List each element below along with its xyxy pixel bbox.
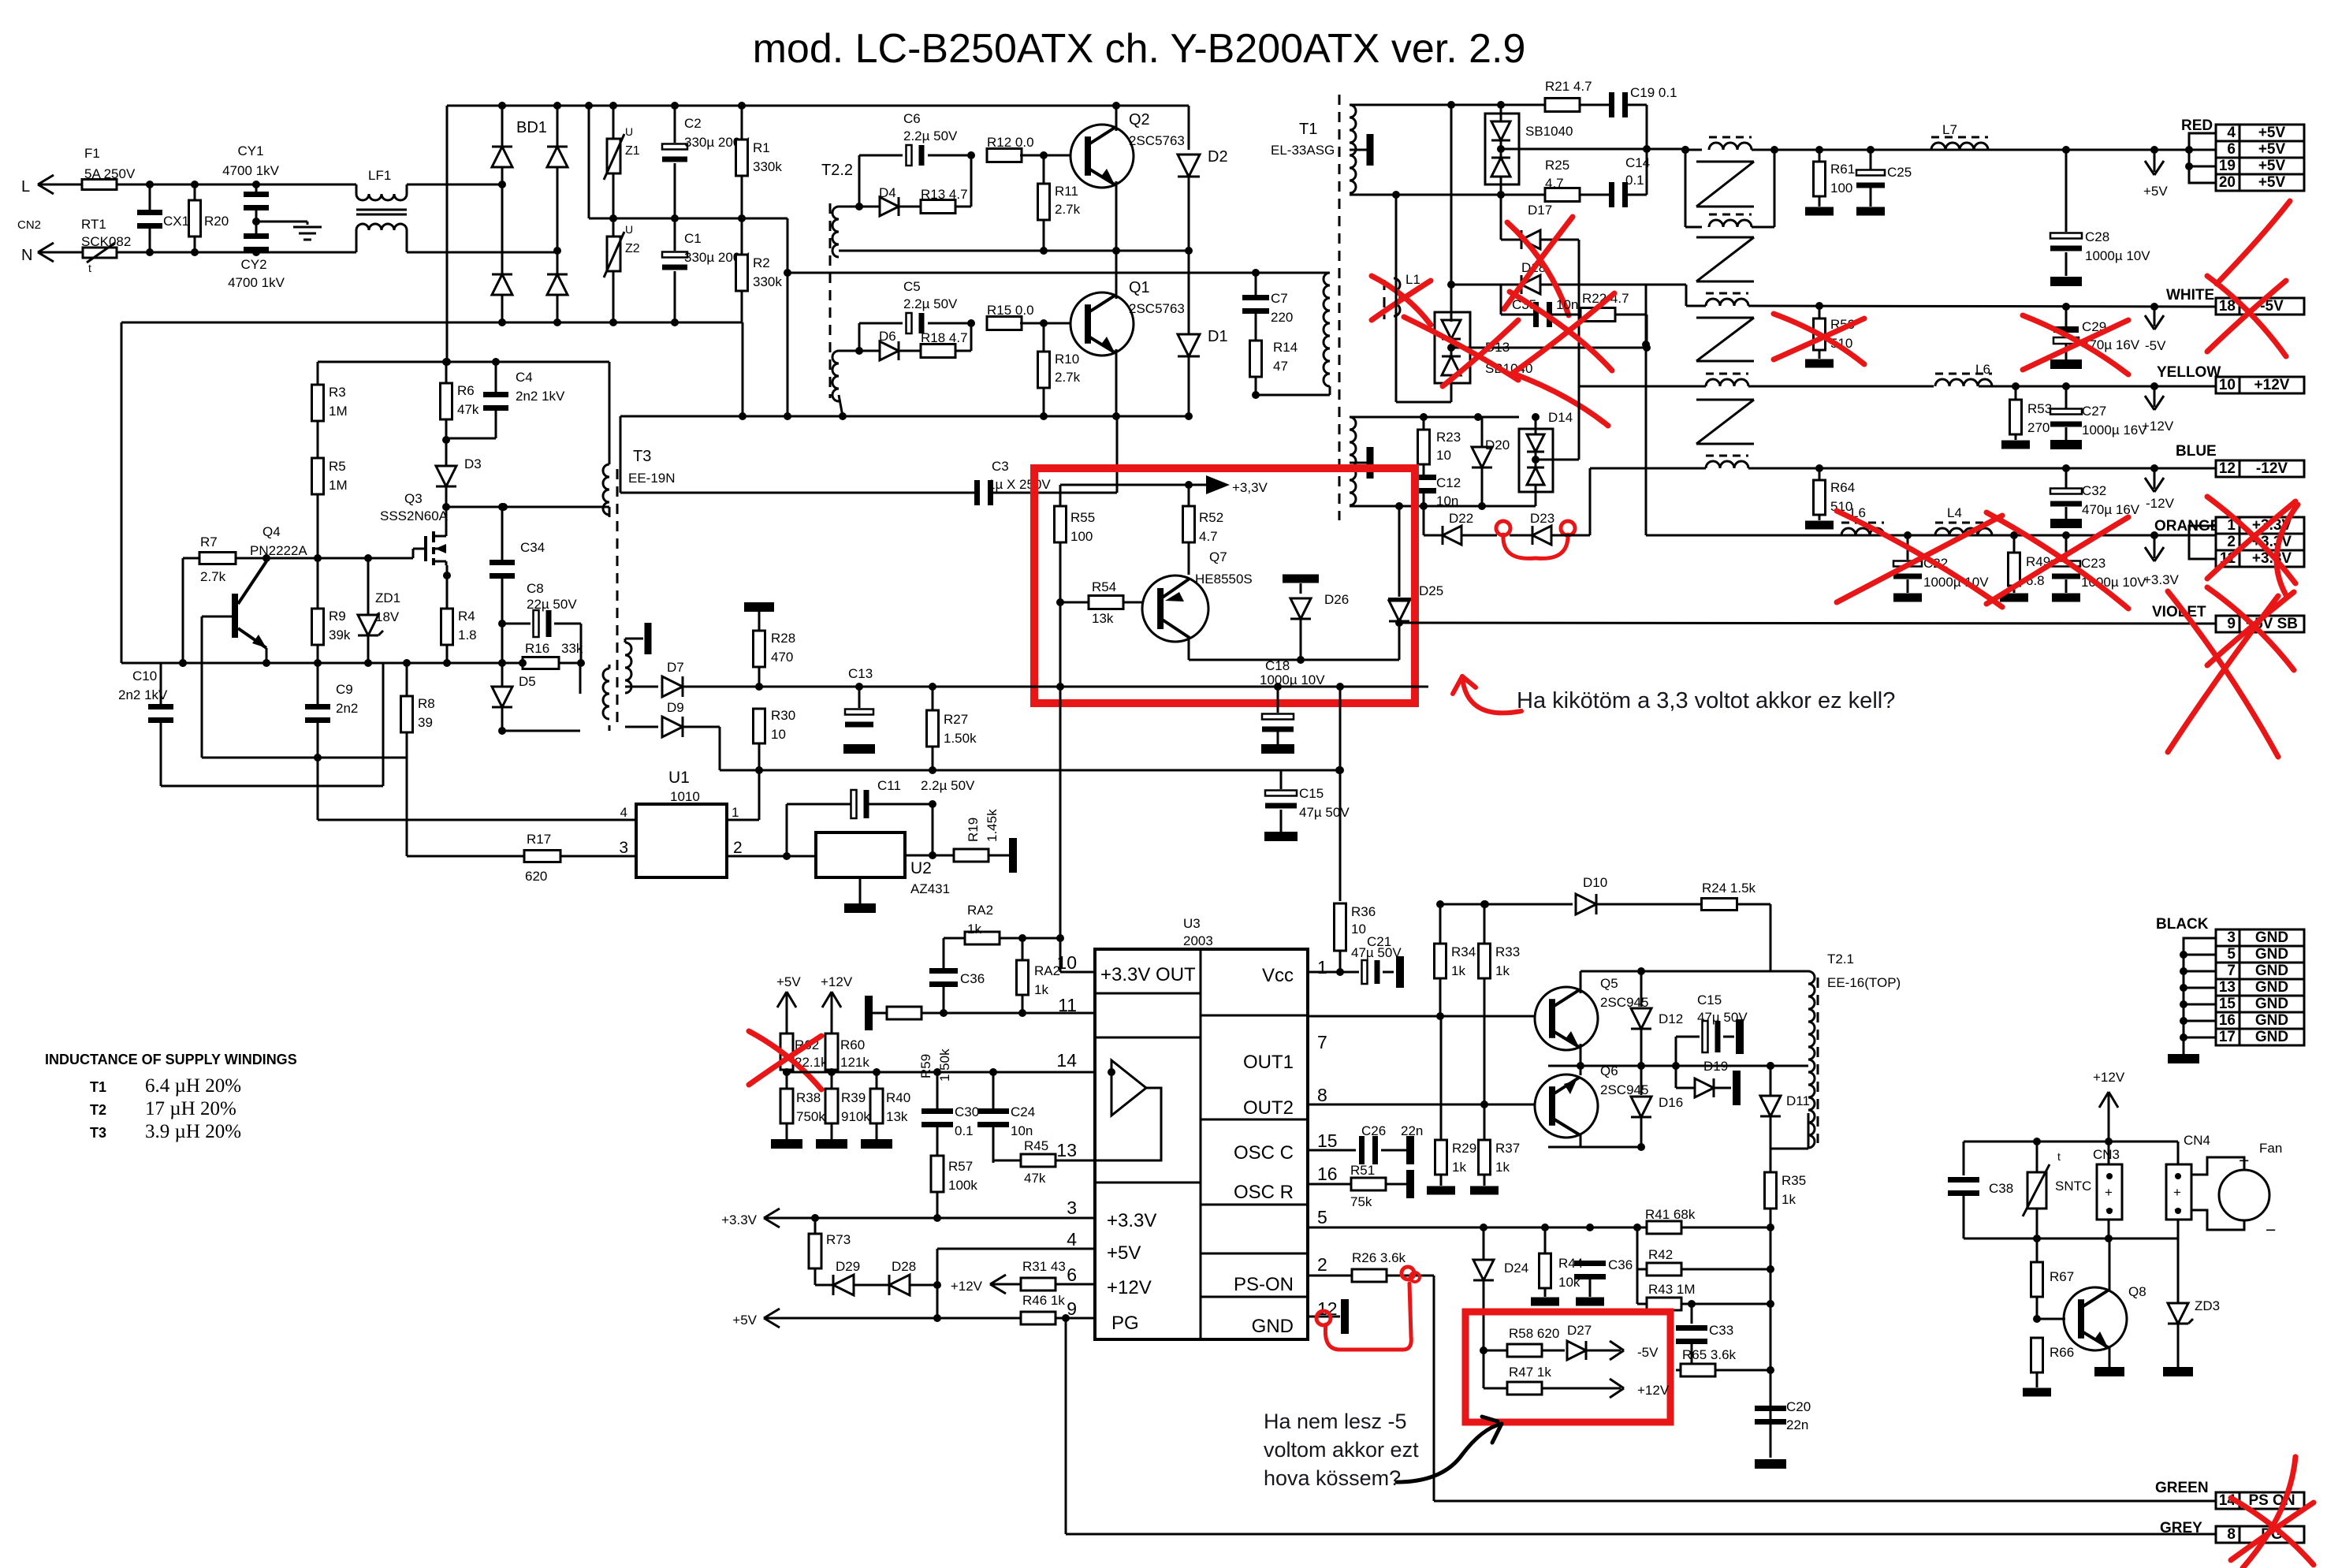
svg-text:+5V: +5V bbox=[2258, 174, 2286, 191]
svg-text:Q3: Q3 bbox=[404, 491, 423, 506]
svg-text:R65 3.6k: R65 3.6k bbox=[1682, 1347, 1737, 1362]
svg-text:+3.3V: +3.3V bbox=[2143, 572, 2180, 587]
svg-text:R27: R27 bbox=[944, 712, 968, 727]
svg-text:voltom akkor ezt: voltom akkor ezt bbox=[1264, 1438, 1419, 1462]
svg-text:1M: 1M bbox=[329, 404, 348, 419]
svg-text:47k: 47k bbox=[457, 402, 479, 417]
wire +5V mid rail bbox=[1501, 148, 1647, 151]
svg-text:C15: C15 bbox=[1299, 786, 1324, 801]
black pen arrow bbox=[1397, 1424, 1502, 1482]
wire bbox=[202, 757, 407, 759]
svg-text:1k: 1k bbox=[1452, 1160, 1466, 1175]
transformer T1 core bbox=[1338, 95, 1341, 520]
svg-text:C26: C26 bbox=[1361, 1123, 1386, 1138]
svg-text:RT1: RT1 bbox=[81, 217, 106, 232]
svg-text:Z2: Z2 bbox=[625, 242, 640, 255]
transformer T2.2 lower winding tail bbox=[839, 395, 843, 416]
resistor R51 bbox=[1308, 1183, 1352, 1185]
svg-text:C9: C9 bbox=[336, 682, 353, 697]
capacitor C8 bbox=[446, 620, 449, 622]
capacitor C5 bbox=[859, 322, 903, 325]
svg-text:+3.3V: +3.3V bbox=[1107, 1210, 1156, 1231]
svg-text:1k: 1k bbox=[967, 922, 981, 937]
wire +5V rail bbox=[1666, 149, 1696, 151]
svg-text:R31 43: R31 43 bbox=[1022, 1259, 1066, 1274]
svg-text:LF1: LF1 bbox=[368, 168, 391, 183]
wire GREEN line bbox=[1434, 1500, 2215, 1503]
wire bottom rail bbox=[121, 322, 743, 324]
svg-text:47µ 50V: 47µ 50V bbox=[1299, 805, 1350, 820]
wire D18 to +12V bbox=[1578, 285, 1580, 386]
red arrow annotation bbox=[1462, 676, 1521, 713]
capacitor C24 bbox=[992, 1072, 995, 1110]
wire line B bbox=[719, 727, 721, 770]
transistor Q5 2SC945 bbox=[1535, 987, 1598, 1050]
svg-text:6.4 µH 20%: 6.4 µH 20% bbox=[145, 1075, 241, 1097]
svg-text:22µ 50V: 22µ 50V bbox=[527, 597, 577, 612]
svg-text:T1: T1 bbox=[90, 1079, 106, 1095]
wire bbox=[1350, 505, 1536, 508]
wire +3.3V rail bbox=[1645, 348, 1648, 535]
svg-text:D7: D7 bbox=[667, 660, 684, 675]
svg-text:C1: C1 bbox=[684, 231, 702, 246]
-12V down arrow bbox=[2154, 468, 2156, 489]
svg-text:1000µ 16V: 1000µ 16V bbox=[2082, 423, 2147, 438]
svg-text:PN2222A: PN2222A bbox=[250, 543, 307, 558]
svg-text:2.7k: 2.7k bbox=[1055, 370, 1081, 385]
svg-text:+5V: +5V bbox=[2143, 184, 2168, 199]
svg-text:PG: PG bbox=[1111, 1313, 1139, 1334]
svg-text:Q6: Q6 bbox=[1600, 1063, 1618, 1078]
wire pin8 OUT2 bbox=[1308, 1104, 1542, 1106]
resistor R53 bbox=[2015, 386, 2017, 400]
svg-text:R35: R35 bbox=[1782, 1173, 1806, 1188]
wire U1 pin1 bbox=[727, 819, 759, 821]
wire +5V winding loop bbox=[1685, 150, 1687, 227]
diode D27 bbox=[1567, 1341, 1586, 1360]
svg-text:17 µH 20%: 17 µH 20% bbox=[145, 1098, 236, 1119]
wire upper drive node bbox=[855, 203, 863, 210]
svg-text:1010: 1010 bbox=[670, 789, 700, 804]
svg-text:4700 1kV: 4700 1kV bbox=[228, 275, 285, 290]
svg-text:R33: R33 bbox=[1495, 944, 1520, 959]
transformer T1 centertap terminal bbox=[1350, 149, 1367, 151]
capacitor CX1 bbox=[149, 184, 151, 211]
red cross over C35 R22 bbox=[1510, 292, 1612, 371]
capacitor C7 bbox=[1255, 273, 1257, 295]
capacitor C12 bbox=[1411, 475, 1436, 480]
wire pin9 +5V bbox=[764, 1317, 1021, 1320]
wire left feed vertical bbox=[446, 106, 449, 362]
wire bbox=[1451, 347, 1647, 349]
svg-text:SCK082: SCK082 bbox=[81, 234, 131, 249]
diode D29 bbox=[815, 1284, 833, 1287]
svg-text:D27: D27 bbox=[1567, 1323, 1592, 1338]
capacitor C34 bbox=[501, 507, 504, 561]
transistor Q1 2SC5763 bbox=[1070, 292, 1134, 356]
svg-text:19: 19 bbox=[2219, 158, 2236, 174]
svg-text:R73: R73 bbox=[826, 1232, 851, 1247]
svg-text:620: 620 bbox=[525, 869, 547, 884]
wire pin14 rail bbox=[783, 1071, 1095, 1074]
svg-text:R57: R57 bbox=[948, 1159, 973, 1174]
output choke winding 4 bbox=[1696, 399, 1754, 401]
wire vcc vertical bbox=[1339, 687, 1342, 901]
wire left vertical bbox=[121, 322, 123, 663]
capacitor C26 bbox=[1308, 1149, 1356, 1152]
red annotation box 2 bbox=[1465, 1312, 1670, 1422]
svg-text:39: 39 bbox=[418, 715, 433, 730]
svg-text:R4: R4 bbox=[458, 609, 475, 624]
svg-text:100k: 100k bbox=[948, 1178, 977, 1193]
resistor R49 crossed bbox=[2013, 535, 2016, 552]
svg-text:7: 7 bbox=[2227, 963, 2236, 979]
svg-text:INDUCTANCE OF SUPPLY WINDINGS: INDUCTANCE OF SUPPLY WINDINGS bbox=[45, 1052, 297, 1067]
svg-text:Q1: Q1 bbox=[1129, 279, 1150, 296]
capacitor C32 bbox=[2065, 468, 2068, 488]
svg-text:C8: C8 bbox=[527, 581, 544, 596]
wire GND bracket bbox=[2184, 938, 2216, 1054]
resistor R15 bbox=[967, 319, 975, 327]
svg-text:+12V: +12V bbox=[2142, 419, 2174, 434]
+5V down arrow bbox=[2154, 150, 2156, 172]
resistor R36 bbox=[1335, 903, 1346, 951]
diode D26 bbox=[1283, 575, 1319, 583]
svg-text:C24: C24 bbox=[1011, 1104, 1035, 1119]
svg-text:R7: R7 bbox=[200, 534, 218, 549]
svg-text:R18 4.7: R18 4.7 bbox=[921, 330, 968, 345]
wire pin5 bbox=[1308, 1227, 1647, 1229]
diode BD1 top-right bbox=[547, 147, 568, 167]
resistor R3 bbox=[317, 362, 319, 386]
svg-text:RA2: RA2 bbox=[967, 903, 993, 918]
capacitor C36 (at D24) bbox=[1589, 1227, 1591, 1261]
wire main aux rail bbox=[121, 662, 523, 665]
IC U3 amp triangle bbox=[1111, 1060, 1146, 1115]
svg-text:470: 470 bbox=[771, 650, 793, 665]
svg-text:Ha nem lesz -5: Ha nem lesz -5 bbox=[1264, 1410, 1407, 1433]
svg-text:BD1: BD1 bbox=[516, 119, 547, 136]
svg-text:16: 16 bbox=[1317, 1164, 1338, 1184]
svg-text:+3.3V OUT: +3.3V OUT bbox=[1100, 964, 1196, 985]
svg-text:R24 1.5k: R24 1.5k bbox=[1702, 881, 1756, 896]
svg-text:t: t bbox=[88, 262, 91, 274]
red annotation box 1 bbox=[1034, 468, 1415, 703]
varistor Z2 bbox=[612, 218, 615, 237]
wire fan top rail bbox=[1964, 1141, 2178, 1143]
svg-text:2n2 1kV: 2n2 1kV bbox=[516, 389, 565, 404]
svg-text:4: 4 bbox=[1067, 1229, 1077, 1250]
svg-text:T2.1: T2.1 bbox=[1827, 952, 1854, 966]
svg-text:C27: C27 bbox=[2082, 404, 2106, 419]
resistor R62 crossed bbox=[780, 1034, 793, 1070]
svg-text:22n: 22n bbox=[1401, 1123, 1423, 1138]
svg-text:D28: D28 bbox=[892, 1259, 916, 1274]
resistor R37 bbox=[1479, 1140, 1491, 1175]
resistor R59 bbox=[865, 996, 873, 1030]
svg-text:U3: U3 bbox=[1183, 916, 1201, 931]
svg-text:1k: 1k bbox=[1782, 1192, 1796, 1207]
earth ground bbox=[252, 218, 260, 225]
svg-text:CY2: CY2 bbox=[240, 257, 266, 272]
svg-text:D11: D11 bbox=[1786, 1093, 1810, 1108]
rectifier D14 bbox=[1519, 429, 1553, 492]
capacitor C27 bbox=[2065, 386, 2068, 408]
resistor R11 bbox=[1040, 151, 1048, 159]
svg-text:OUT2: OUT2 bbox=[1243, 1097, 1294, 1119]
resistor R4 bbox=[446, 565, 449, 609]
svg-text:16: 16 bbox=[2219, 1012, 2236, 1029]
svg-text:2.7k: 2.7k bbox=[200, 569, 226, 584]
wire -5V rail bbox=[1579, 284, 1686, 286]
svg-text:5A 250V: 5A 250V bbox=[84, 166, 136, 181]
svg-text:R40: R40 bbox=[886, 1090, 910, 1105]
shunt regulator U2 AZ431 bbox=[816, 832, 905, 877]
svg-text:-12V: -12V bbox=[2146, 496, 2175, 511]
wire bbox=[742, 322, 744, 416]
svg-text:3: 3 bbox=[619, 839, 628, 857]
svg-text:R66: R66 bbox=[2050, 1345, 2074, 1360]
resistor R2 bbox=[741, 218, 743, 255]
svg-text:10: 10 bbox=[1056, 952, 1077, 973]
svg-text:2: 2 bbox=[733, 839, 743, 857]
resistor R73 bbox=[814, 1218, 817, 1234]
svg-text:2: 2 bbox=[1317, 1254, 1327, 1275]
+3.3V down arrow bbox=[2154, 535, 2156, 558]
svg-text:R9: R9 bbox=[329, 609, 346, 624]
wire T3 primary bottom bbox=[609, 515, 611, 517]
svg-text:D4: D4 bbox=[879, 185, 896, 200]
thermistor SNTC bbox=[2027, 1172, 2046, 1209]
svg-text:R61: R61 bbox=[1830, 162, 1855, 177]
svg-text:+12V: +12V bbox=[821, 974, 853, 989]
wire bbox=[407, 184, 502, 186]
svg-text:PS-ON: PS-ON bbox=[1234, 1274, 1294, 1295]
capacitor C21 bbox=[1340, 971, 1359, 974]
resistor R33 bbox=[1484, 904, 1486, 944]
svg-text:0.1: 0.1 bbox=[955, 1123, 974, 1138]
transistor Q7 HE8550S bbox=[1142, 575, 1208, 642]
resistor R18 bbox=[899, 350, 921, 352]
svg-text:100: 100 bbox=[1070, 529, 1093, 544]
wire pin2 PS-ON bbox=[1308, 1275, 1352, 1277]
svg-text:10n: 10n bbox=[1011, 1123, 1033, 1138]
resistor R8 bbox=[406, 663, 408, 697]
svg-text:3: 3 bbox=[1067, 1197, 1077, 1218]
svg-text:2: 2 bbox=[2227, 534, 2236, 550]
diode D20 bbox=[1472, 447, 1492, 467]
svg-text:YELLOW: YELLOW bbox=[2157, 364, 2221, 381]
svg-text:+: + bbox=[2105, 1185, 2113, 1200]
resistor R66 bbox=[2033, 1315, 2041, 1323]
ground U2 bbox=[859, 877, 862, 906]
svg-text:33k: 33k bbox=[561, 641, 583, 656]
svg-text:hova kössem?: hova kössem? bbox=[1264, 1466, 1401, 1490]
wire top secondary rail bbox=[1350, 104, 1501, 106]
diode D5 bbox=[501, 663, 504, 686]
resistor R14 bbox=[1250, 341, 1262, 377]
svg-text:6: 6 bbox=[2227, 141, 2236, 158]
capacitor C33 bbox=[1691, 1304, 1693, 1324]
svg-text:-5V: -5V bbox=[2145, 338, 2166, 353]
wire Q6 collector bbox=[1579, 1066, 1580, 1078]
diode D24 bbox=[1473, 1260, 1494, 1280]
resistor R39 bbox=[825, 1089, 838, 1123]
svg-text:U1: U1 bbox=[668, 769, 690, 787]
resistor R61 bbox=[1819, 150, 1821, 162]
svg-text:GREEN: GREEN bbox=[2155, 1480, 2209, 1496]
svg-text:2n2: 2n2 bbox=[336, 701, 358, 716]
diode D1 bbox=[1178, 334, 1200, 356]
wire 12V windings rails bbox=[1420, 413, 1428, 421]
diode D11 bbox=[1770, 1066, 1772, 1095]
svg-text:T2: T2 bbox=[90, 1102, 106, 1118]
svg-text:T3: T3 bbox=[633, 448, 651, 465]
svg-text:C12: C12 bbox=[1436, 475, 1461, 490]
svg-text:R34: R34 bbox=[1451, 944, 1476, 959]
varistor Z1 bbox=[612, 106, 615, 139]
capacitor CY2 bbox=[244, 233, 269, 239]
svg-text:12: 12 bbox=[2219, 460, 2236, 477]
svg-text:1: 1 bbox=[1317, 957, 1327, 978]
output choke winding 1 coils bbox=[1709, 143, 1752, 150]
capacitor C35 crossed bbox=[1500, 285, 1502, 315]
svg-text:D6: D6 bbox=[879, 329, 896, 344]
svg-text:F1: F1 bbox=[84, 146, 100, 161]
svg-text:D24: D24 bbox=[1504, 1261, 1528, 1276]
rectifier SB1040 top bbox=[1485, 114, 1519, 184]
diode D6 bbox=[859, 350, 880, 352]
svg-text:1000µ 10V: 1000µ 10V bbox=[1260, 672, 1325, 687]
svg-text:R54: R54 bbox=[1092, 579, 1116, 594]
svg-text:1k: 1k bbox=[1495, 963, 1510, 978]
fuse F1 bbox=[82, 180, 117, 190]
svg-text:GND: GND bbox=[2255, 1029, 2288, 1045]
wire bbox=[1059, 687, 1062, 938]
svg-text:C30: C30 bbox=[955, 1104, 979, 1119]
capacitor C4 bbox=[495, 362, 497, 393]
resistor R20 bbox=[194, 184, 196, 201]
capacitor C14 bbox=[1609, 182, 1614, 207]
svg-text:330k: 330k bbox=[753, 274, 782, 289]
svg-text:R60: R60 bbox=[840, 1037, 865, 1052]
wire fan bottom rail bbox=[1964, 1238, 2178, 1240]
resistor R24 bbox=[1702, 899, 1737, 911]
wire bbox=[1115, 416, 1118, 418]
svg-text:100: 100 bbox=[1830, 181, 1852, 196]
wire pin3 +3.3V arrow bbox=[764, 1217, 1095, 1220]
wire to D7 D9 bbox=[609, 686, 668, 687]
wire U1 pin2 bbox=[727, 855, 816, 858]
red cross over L1 bbox=[1372, 276, 1431, 325]
svg-text:CY1: CY1 bbox=[237, 143, 263, 158]
svg-text:D25: D25 bbox=[1419, 583, 1443, 598]
svg-text:R59: R59 bbox=[918, 1054, 933, 1078]
diode D19 bbox=[1675, 1066, 1677, 1088]
resistor R38 bbox=[780, 1089, 793, 1123]
zener ZD1 bbox=[358, 615, 378, 635]
svg-text:+3,3V: +3,3V bbox=[1232, 480, 1268, 495]
svg-text:C3: C3 bbox=[992, 459, 1009, 474]
svg-text:C36: C36 bbox=[960, 971, 985, 986]
wire top rail bbox=[447, 105, 1116, 107]
svg-text:R8: R8 bbox=[418, 696, 435, 711]
svg-text:GND: GND bbox=[2255, 979, 2288, 996]
wire pin7 OUT1 bbox=[1308, 1015, 1542, 1018]
wire bbox=[117, 251, 356, 254]
rectifier D13 SB1040 crossed bbox=[1435, 312, 1470, 383]
svg-text:Q7: Q7 bbox=[1209, 549, 1227, 564]
svg-text:HE8550S: HE8550S bbox=[1195, 572, 1253, 587]
svg-text:2.2µ 50V: 2.2µ 50V bbox=[903, 128, 958, 143]
resistor R44 bbox=[1544, 1227, 1547, 1253]
capacitor C38 bbox=[1963, 1142, 1965, 1175]
red blob GND bbox=[1316, 1311, 1331, 1325]
svg-text:SB1040: SB1040 bbox=[1525, 124, 1573, 139]
svg-text:1.50k: 1.50k bbox=[937, 1048, 952, 1082]
optocoupler U1 bbox=[636, 804, 727, 877]
svg-text:GND: GND bbox=[1252, 1316, 1294, 1337]
resistor R45 bbox=[992, 1160, 995, 1163]
resistor R46 bbox=[1021, 1312, 1056, 1324]
svg-text:D10: D10 bbox=[1583, 875, 1607, 890]
wire +5VSB rail bbox=[1399, 623, 2215, 624]
svg-text:2.7k: 2.7k bbox=[1055, 202, 1081, 217]
svg-text:270: 270 bbox=[2027, 420, 2050, 435]
svg-text:D22: D22 bbox=[1449, 511, 1473, 526]
svg-text:4: 4 bbox=[2227, 125, 2236, 141]
wire bottom secondary rail bbox=[1350, 194, 1501, 196]
svg-text:20: 20 bbox=[2219, 174, 2236, 191]
resistor R22 bbox=[1580, 308, 1615, 322]
svg-text:7: 7 bbox=[1317, 1032, 1327, 1052]
svg-text:2.2µ 50V: 2.2µ 50V bbox=[903, 296, 958, 311]
wire Q7 emitter bbox=[1188, 638, 1190, 660]
capacitor C19 bbox=[1609, 92, 1614, 117]
wire R3 R6 top rail bbox=[318, 361, 609, 363]
svg-text:8: 8 bbox=[2227, 1526, 2236, 1543]
resistor R40 bbox=[870, 1089, 883, 1123]
capacitor C3 bbox=[620, 416, 622, 493]
wire Q8 base bbox=[2037, 1318, 2065, 1320]
svg-text:D17: D17 bbox=[1528, 203, 1552, 218]
svg-text:R51: R51 bbox=[1350, 1163, 1375, 1178]
svg-text:2.2µ 50V: 2.2µ 50V bbox=[921, 778, 975, 793]
svg-text:U2: U2 bbox=[910, 859, 932, 877]
svg-text:C25: C25 bbox=[1887, 165, 1912, 180]
svg-text:R58 620: R58 620 bbox=[1509, 1326, 1559, 1341]
svg-text:2003: 2003 bbox=[1183, 933, 1213, 948]
transformer T1 centertap terminal 2 bbox=[1350, 462, 1367, 464]
wire PG down bbox=[1065, 1318, 1067, 1534]
diode D9 bbox=[625, 726, 658, 728]
svg-text:Q4: Q4 bbox=[262, 524, 281, 539]
wire lower rail2 bbox=[787, 272, 1256, 274]
resistor R28 bbox=[744, 602, 774, 612]
transformer T2.2 upper winding bbox=[832, 207, 839, 257]
svg-text:R1: R1 bbox=[753, 140, 770, 155]
resistor R34 bbox=[1439, 904, 1442, 944]
svg-text:R11: R11 bbox=[1055, 184, 1078, 199]
resistor R54 bbox=[1056, 598, 1064, 606]
svg-text:4.7: 4.7 bbox=[1545, 176, 1564, 191]
svg-text:1000µ 10V: 1000µ 10V bbox=[2085, 248, 2150, 263]
wire mid drive rail bbox=[839, 250, 1189, 252]
svg-text:ZD3: ZD3 bbox=[2195, 1298, 2220, 1313]
svg-text:L4: L4 bbox=[1947, 505, 1962, 520]
svg-text:RED: RED bbox=[2181, 117, 2213, 134]
diode D4 bbox=[859, 206, 880, 208]
